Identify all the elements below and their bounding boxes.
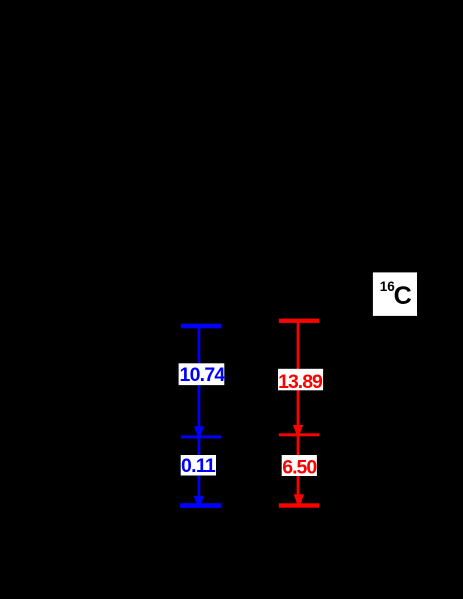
svg-text:0.11: 0.11: [181, 455, 216, 477]
svg-text:6.50: 6.50: [282, 457, 317, 479]
svg-text:13.89: 13.89: [278, 371, 323, 393]
svg-text:C: C: [394, 282, 412, 310]
svg-text:10.74: 10.74: [179, 364, 225, 386]
